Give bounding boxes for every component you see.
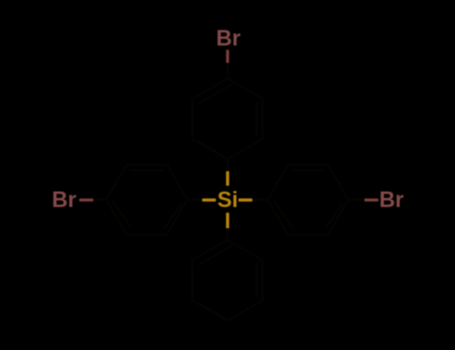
- svg-text:Si: Si: [217, 187, 238, 212]
- svg-text:Br: Br: [52, 187, 77, 212]
- svg-text:Br: Br: [216, 26, 241, 51]
- svg-text:Br: Br: [379, 187, 404, 212]
